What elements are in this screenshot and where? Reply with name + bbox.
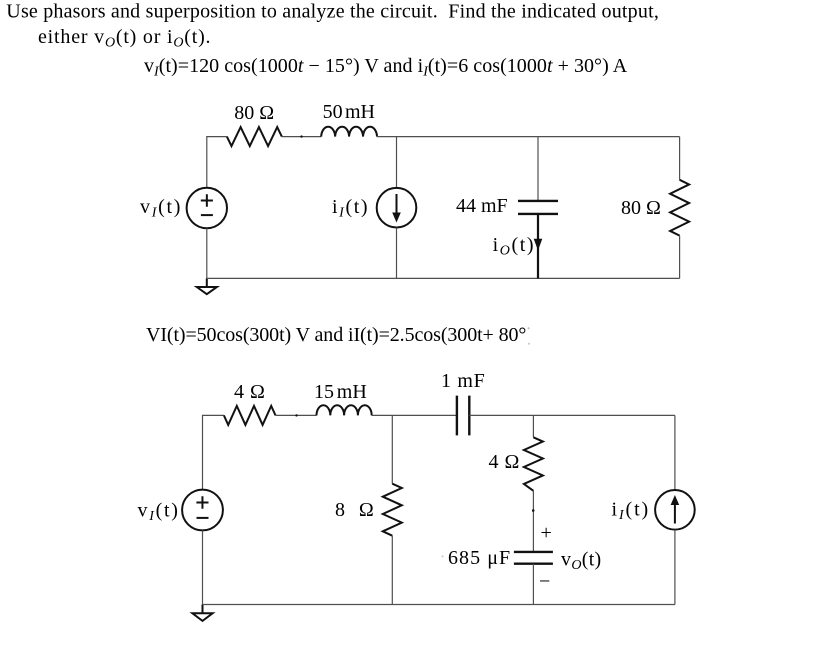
inductor L1 50mH [321, 127, 377, 137]
svg-text:vO(t): vO(t) [561, 549, 602, 574]
ground symbol circuit 1 [206, 278, 208, 287]
wire: resistor R1 to inductor L1 [282, 136, 321, 138]
wire: C2 to top-right corner [469, 414, 675, 416]
capacitor C3 685uF plates [514, 552, 553, 564]
wire: top-right corner down to current source CS2 [674, 415, 676, 490]
svg-text:4 Ω: 4 Ω [489, 451, 520, 473]
wire: CS1 to bottom wire [396, 228, 398, 279]
svg-text:vI(t)=120 cos(1000t − 15°) V a: vI(t)=120 cos(1000t − 15°) V and iI(t)=6… [144, 55, 628, 80]
wire: R2 to bottom-right corner [679, 236, 681, 279]
wire: R3 to inductor L2 [276, 414, 317, 416]
wire: top wire to capacitor C1 [537, 137, 539, 200]
wire: R5 to capacitor C3 [532, 491, 534, 551]
wire: L2 to capacitor C2 [372, 414, 457, 416]
resistor R5 4ohm vertical zigzag [524, 437, 543, 491]
wire with output current below C1 (bold) [537, 214, 539, 279]
wire: top junction down to resistor R5 4ohm [532, 415, 534, 437]
wire: mid junction down to resistor R4 8ohm [391, 415, 393, 483]
svg-text:iO(t): iO(t) [493, 234, 536, 259]
wire: C3 to bottom wire [532, 564, 534, 605]
bottom wire circuit 1 [207, 277, 680, 279]
resistor R3 4ohm zigzag [224, 406, 276, 425]
voltage source VS1 circle [187, 188, 227, 228]
current source CS2 circle [655, 490, 695, 530]
minus sign inside VS1 [201, 214, 213, 216]
resistor R4 8ohm vertical zigzag [383, 484, 402, 536]
svg-text:50 mH: 50 mH [323, 101, 375, 123]
node dot between R1 and L1 [300, 135, 302, 137]
svg-text:80 Ω: 80 Ω [621, 197, 661, 219]
svg-text:80 Ω: 80 Ω [234, 102, 274, 124]
wire: CS2 to bottom-right corner [674, 530, 676, 605]
resistor R2 80ohm vertical zigzag [670, 180, 689, 236]
arrow inside CS2 pointing up [674, 503, 676, 524]
svg-text:44 mF: 44 mF [456, 195, 508, 217]
svg-text:vI(t): vI(t) [138, 500, 180, 525]
wire: VS2 to bottom-left corner [202, 530, 204, 604]
wire: inductor L1 to top-right corner [377, 136, 680, 138]
svg-text:8 Ω: 8 Ω [335, 499, 375, 521]
ground symbol circuit 2 [202, 605, 204, 614]
plus sign inside VS2 [196, 496, 208, 509]
svg-text:VI(t)=50cos(300t) V and iI(t)=: VI(t)=50cos(300t) V and iI(t)=2.5cos(300… [146, 324, 526, 346]
current source CS1 circle [377, 188, 417, 228]
capacitor C1 44mF plates [518, 201, 558, 214]
capacitor C2 1mF plates (vertical) [457, 396, 469, 436]
svg-text:vI(t): vI(t) [140, 196, 182, 221]
wire: R4 to bottom wire [391, 536, 393, 605]
plus sign inside VS1 [201, 194, 213, 207]
wire: VS1 bottom to ground corner [206, 228, 208, 278]
bottom wire circuit 2 [203, 604, 675, 606]
arrow inside CS1 pointing down [396, 194, 398, 215]
wire: circuit1 top-left corner to resistor [207, 137, 227, 188]
svg-text:685 μF: 685 μF [448, 547, 511, 569]
voltage source VS2 circle [182, 490, 223, 531]
inductor L2 15mH [317, 405, 372, 415]
node dot between R3 and L2 [295, 414, 297, 416]
resistor R1 80ohm horizontal zigzag [227, 127, 282, 146]
minus sign inside VS2 [197, 517, 209, 519]
svg-text:1 mF: 1 mF [441, 370, 485, 392]
svg-text:4 Ω: 4 Ω [234, 381, 265, 403]
faint speck before 685uF label [442, 555, 444, 557]
svg-text:iI(t): iI(t) [332, 196, 369, 221]
svg-text:15 mH: 15 mH [314, 381, 367, 403]
faint speck upper after mid text [528, 327, 530, 329]
faint speck lower after mid text [528, 343, 530, 345]
svg-text:Use phasors and superposition: Use phasors and superposition to analyze… [6, 1, 659, 23]
wire: top-right corner down to resistor R2 [679, 137, 681, 180]
node dot on R5-C3 wire [532, 509, 535, 512]
arrow head iO(t) [534, 239, 543, 251]
wire: circuit2 top-left corner to resistor R3 [203, 415, 224, 489]
svg-text:iI(t): iI(t) [612, 499, 651, 524]
svg-text:+: + [541, 522, 552, 544]
svg-text:.: . [206, 26, 211, 48]
wire: top wire junction to current source CS1 [396, 137, 398, 188]
svg-text:−: − [539, 571, 550, 593]
